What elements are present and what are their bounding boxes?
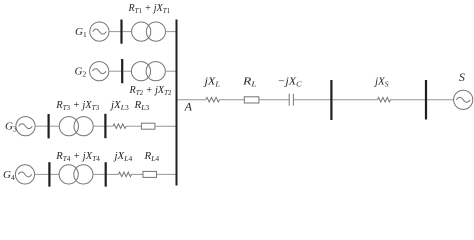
- wire RL3 to main bus A: [155, 125, 177, 127]
- bus bar G3 left: [47, 114, 49, 138]
- svg-text:G1: G1: [75, 26, 87, 39]
- wire right bus bar to source S: [427, 99, 454, 101]
- wire T4 to bus bar 2: [93, 173, 105, 175]
- bus bar G2: [121, 59, 123, 83]
- wire bus bar to transformer T1: [123, 31, 132, 33]
- wire G2 to bus bar: [109, 70, 122, 72]
- svg-text:RT4 + jXT4: RT4 + jXT4: [55, 150, 100, 163]
- wire bus bar to transformer T2: [123, 70, 131, 72]
- wire bus bar to inductor jXL4: [107, 173, 119, 175]
- wire T3 to bus bar 2: [93, 125, 104, 127]
- svg-text:RT3 + jXT3: RT3 + jXT3: [55, 99, 99, 112]
- svg-text:RT2 + jXT2: RT2 + jXT2: [129, 84, 172, 97]
- resistor RL4: [143, 171, 157, 177]
- bus bar G3 right: [104, 114, 106, 138]
- resistor RL3: [141, 123, 155, 129]
- wire T2 to main bus A: [165, 70, 176, 72]
- bus bar G1: [120, 20, 122, 44]
- svg-text:S: S: [459, 70, 465, 84]
- bus bar G4 right: [105, 162, 107, 186]
- svg-text:A: A: [184, 99, 193, 113]
- wire bus bar to transformer T3: [50, 125, 60, 127]
- svg-text:RL3: RL3: [134, 99, 150, 112]
- svg-text:G2: G2: [75, 66, 87, 79]
- inductor jXL: [206, 97, 220, 102]
- capacitor -jXC: [289, 94, 293, 106]
- bus bar right: [425, 80, 427, 120]
- generator G3: [16, 117, 35, 136]
- main bus A (vertical): [176, 20, 178, 186]
- transformer T4: [59, 165, 93, 184]
- inductor jXS: [378, 97, 391, 102]
- wire jXL4 to resistor RL4: [132, 173, 144, 175]
- wire bus bar to inductor jXL3: [106, 125, 113, 127]
- bus bar mid: [330, 80, 332, 120]
- svg-text:RT1 + jXT1: RT1 + jXT1: [128, 2, 171, 15]
- transformer T2: [131, 62, 165, 81]
- generator G4: [15, 165, 34, 184]
- svg-text:G4: G4: [3, 169, 15, 182]
- wire G4 to bus bar 1: [34, 173, 48, 175]
- inductor jXL3: [113, 124, 126, 129]
- wire RL4 to main bus A: [157, 173, 177, 175]
- wire node A to inductor jXL: [178, 99, 206, 101]
- svg-text:jXL4: jXL4: [113, 150, 133, 163]
- svg-text:−jXC: −jXC: [277, 76, 303, 89]
- generator G2: [90, 62, 109, 81]
- svg-text:jXL: jXL: [202, 76, 220, 89]
- source S: [454, 90, 473, 109]
- wire jXL to resistor RL: [220, 99, 245, 101]
- transformer T3: [59, 117, 93, 136]
- svg-text:RL: RL: [242, 76, 257, 89]
- svg-text:jXS: jXS: [373, 76, 389, 89]
- wire RL to capacitor: [259, 99, 289, 101]
- wire jXL3 to resistor RL3: [126, 125, 141, 127]
- wire bus bar to transformer T4: [50, 173, 59, 175]
- transformer T1: [132, 22, 166, 41]
- wire T1 to main bus A: [165, 31, 176, 33]
- wire mid bus bar to inductor jXS: [332, 99, 377, 101]
- bus bar G4 left: [48, 162, 50, 186]
- wire jXS to right bus bar: [391, 99, 426, 101]
- generator G1: [90, 22, 109, 41]
- wire G1 to bus bar: [109, 31, 121, 33]
- inductor jXL4: [119, 172, 132, 177]
- resistor RL: [244, 97, 259, 103]
- wire capacitor to mid bus bar: [293, 99, 330, 101]
- svg-text:G3: G3: [5, 121, 17, 134]
- wire G3 to bus bar 1: [35, 125, 48, 127]
- svg-text:RL4: RL4: [144, 150, 160, 163]
- svg-text:jXL3: jXL3: [109, 99, 129, 112]
